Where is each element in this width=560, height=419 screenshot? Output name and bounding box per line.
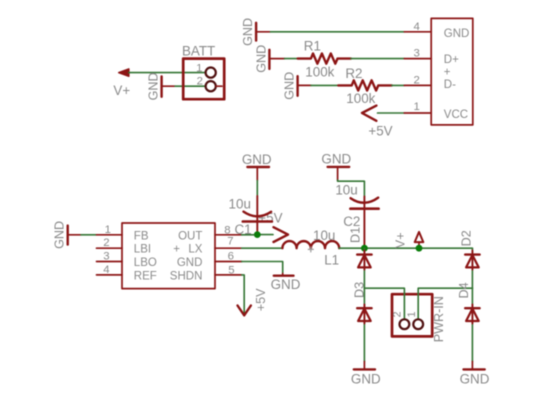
wire V+ rail: [364, 247, 472, 249]
svg-text:BATT: BATT: [182, 43, 215, 58]
capacitor C2 10u: [335, 183, 378, 249]
wire pin5 SHDN down: [242, 275, 245, 314]
wire pin7 LX to L1: [242, 247, 283, 249]
supply +5V arrow at OUT node: [257, 227, 288, 242]
ground GND below D4: [460, 362, 490, 387]
wire GND to C2: [338, 180, 365, 196]
pin numbers 5-8: [227, 235, 234, 276]
svg-text:VCC: VCC: [444, 109, 468, 121]
connector USB body: [431, 18, 473, 125]
svg-text:GND: GND: [444, 28, 470, 40]
IC left pin stubs 1-4: [97, 235, 123, 275]
svg-text:2: 2: [413, 74, 419, 86]
svg-text:D3: D3: [353, 282, 367, 298]
wire bridge mid left: [364, 288, 404, 319]
connector PWR-IN body: [392, 294, 432, 336]
ground GND above C2: [321, 152, 351, 181]
ground GND at IC pin6: [271, 274, 301, 293]
capacitor C1 10u: [229, 196, 272, 235]
svg-text:GND: GND: [321, 152, 351, 167]
wire R1 to pin3: [351, 58, 404, 60]
svg-text:10u: 10u: [229, 197, 251, 212]
pin numbers USB: [413, 21, 419, 113]
junction node at D1: [361, 245, 368, 252]
svg-text:10u: 10u: [313, 228, 335, 243]
svg-text:LBO: LBO: [134, 257, 157, 269]
diode D3: [353, 282, 372, 362]
wire GND to pin1: [81, 234, 96, 236]
wire BATT pin2 to GND: [175, 85, 206, 87]
svg-text:+: +: [444, 67, 451, 79]
supply +5V arrow on VCC net: [362, 106, 393, 139]
svg-text:GND: GND: [242, 152, 272, 167]
svg-text:100k: 100k: [346, 91, 375, 106]
ground GND at IC pin1 FB: [53, 221, 82, 249]
wire GND to R2: [311, 84, 338, 86]
IC U1 boost converter body: [122, 223, 215, 289]
svg-text:D4: D4: [457, 282, 471, 298]
svg-text:GND: GND: [271, 277, 301, 292]
resistor R1 100k: [298, 39, 351, 80]
svg-text:4: 4: [103, 264, 109, 276]
ground GND below D3: [351, 362, 381, 387]
svg-text:C2: C2: [343, 214, 360, 229]
ground GND above C1: [242, 152, 272, 181]
svg-text:GND: GND: [241, 18, 255, 46]
connector BATT: [182, 43, 224, 99]
junction node at V+: [416, 245, 423, 252]
svg-text:2: 2: [197, 75, 203, 87]
svg-text:3: 3: [413, 48, 419, 60]
svg-text:+5V: +5V: [368, 124, 392, 139]
svg-text:OUT: OUT: [178, 230, 202, 242]
diode D2: [460, 230, 480, 288]
wire GND to R1: [285, 58, 298, 60]
svg-text:4: 4: [413, 21, 419, 33]
resistor R2 100k: [338, 66, 392, 106]
junction node at C1/OUT: [254, 231, 261, 238]
wire GND to C1: [256, 181, 258, 197]
supply V+ arrow on rail: [394, 232, 424, 248]
svg-text:6: 6: [228, 250, 234, 262]
svg-text:V+: V+: [113, 83, 130, 98]
svg-text:1: 1: [105, 224, 111, 236]
wire pin4 GND net: [270, 31, 404, 33]
connector PWR-IN pins: [391, 296, 445, 342]
ground GND on R2 net: [283, 72, 311, 100]
wire bridge mid right: [418, 288, 472, 319]
diode D4: [457, 282, 479, 361]
svg-text:GND: GND: [147, 72, 161, 100]
wire pin8 OUT to node: [242, 234, 254, 236]
svg-text:GND: GND: [283, 72, 297, 100]
svg-text:+5V: +5V: [254, 288, 268, 311]
svg-text:2: 2: [103, 237, 109, 249]
svg-text:LX: LX: [188, 244, 202, 256]
svg-text:2: 2: [391, 311, 403, 317]
wire pin6 GND to ground: [242, 262, 283, 274]
wire R2 to pin2: [392, 84, 405, 86]
supply V+ arrow left of BATT: [113, 69, 130, 98]
wire L1 to D1 node: [339, 247, 364, 249]
svg-text:100k: 100k: [305, 64, 334, 79]
svg-text:SHDN: SHDN: [170, 270, 203, 282]
wire +5V to pin1: [378, 112, 405, 114]
svg-text:1: 1: [413, 101, 419, 113]
pin numbers 1-4: [103, 224, 111, 276]
svg-text:10u: 10u: [335, 183, 357, 198]
svg-text:R2: R2: [345, 66, 362, 81]
wire BATT pin1 to V+: [129, 72, 206, 74]
svg-text:FB: FB: [134, 230, 149, 242]
supply +5V arrow down at SHDN: [238, 288, 269, 315]
svg-text:D+: D+: [444, 54, 459, 66]
connector USB pin stubs: [404, 32, 431, 113]
ground GND on USB pin4 net: [241, 18, 270, 46]
svg-text:LBI: LBI: [134, 244, 151, 256]
ground GND at BATT pin2: [147, 72, 175, 100]
svg-text:D2: D2: [460, 230, 474, 246]
inductor L1 10u: [282, 228, 339, 267]
svg-text:L1: L1: [324, 253, 339, 268]
diode D1: [349, 227, 372, 288]
svg-text:GND: GND: [255, 45, 269, 73]
svg-text:PWR-IN: PWR-IN: [432, 296, 446, 342]
svg-text:GND: GND: [53, 221, 67, 249]
svg-text:GND: GND: [460, 372, 490, 387]
svg-text:GND: GND: [177, 257, 203, 269]
svg-text:1: 1: [196, 62, 202, 74]
svg-text:R1: R1: [304, 39, 321, 54]
svg-text:5: 5: [228, 264, 234, 276]
svg-text:V+: V+: [394, 232, 408, 248]
svg-text:+: +: [173, 244, 180, 256]
IC right pin stubs 5-8: [215, 235, 242, 275]
ground GND on R1 net: [255, 45, 285, 73]
svg-text:1: 1: [406, 311, 418, 317]
svg-text:D-: D-: [444, 79, 456, 91]
svg-text:D1: D1: [349, 227, 363, 243]
svg-text:3: 3: [103, 251, 109, 263]
svg-text:7: 7: [227, 235, 233, 247]
svg-text:REF: REF: [134, 270, 157, 282]
svg-text:GND: GND: [351, 372, 381, 387]
